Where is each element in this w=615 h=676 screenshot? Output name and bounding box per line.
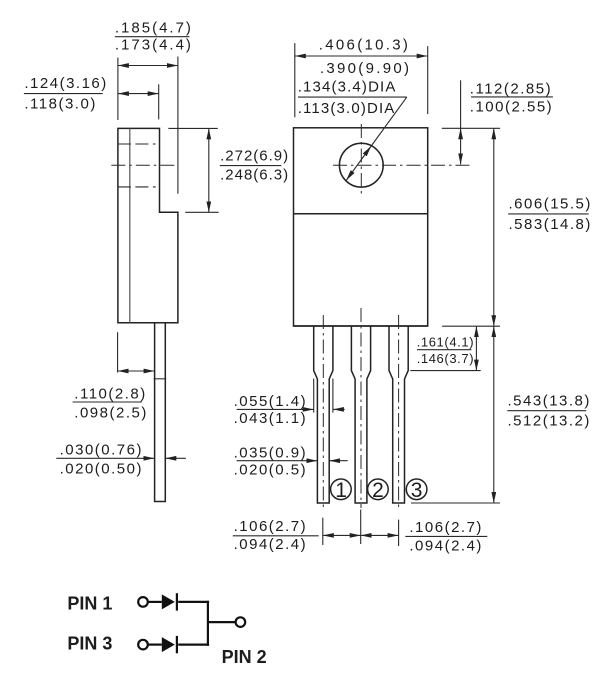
svg-text:PIN 1: PIN 1 — [67, 594, 112, 614]
wire D2 to node — [178, 643, 209, 645]
svg-text:PIN 3: PIN 3 — [67, 634, 112, 654]
terminal PIN1 circle — [138, 597, 148, 607]
svg-text:3: 3 — [411, 479, 423, 502]
dim .606 dimension line — [493, 128, 495, 326]
hole horizontal centerline — [333, 164, 470, 166]
front lead 3 — [389, 326, 408, 503]
svg-text:1: 1 — [335, 479, 347, 502]
pitch text right — [405, 519, 487, 555]
junction wire vertical — [207, 601, 209, 646]
dim .055 text and leader — [234, 393, 314, 427]
dim .112 dimension line — [460, 128, 462, 164]
svg-text:.146(3.7): .146(3.7) — [417, 351, 474, 366]
dim .606 text — [508, 196, 592, 233]
svg-text:.113(3.0)DIA: .113(3.0)DIA — [298, 100, 396, 117]
dim .110 text — [73, 386, 148, 422]
dim .185 extension left — [117, 58, 119, 121]
wire PIN3 to D2 — [148, 643, 162, 645]
dim .110 dimension line — [118, 370, 155, 372]
dim .272 dimension line — [208, 128, 210, 212]
pin number 3 — [406, 479, 427, 502]
dim .185 dimension line — [118, 65, 178, 67]
svg-text:.030(0.76): .030(0.76) — [60, 441, 143, 458]
dia leader arrows — [346, 146, 371, 180]
lead tip extension — [411, 502, 500, 504]
svg-text:.272(6.9): .272(6.9) — [220, 148, 289, 165]
svg-text:.583(14.8): .583(14.8) — [509, 216, 592, 233]
dim .124 extension — [158, 84, 160, 119]
diode D1 — [162, 594, 175, 609]
hole vertical centerline — [360, 124, 362, 195]
svg-text:.161(4.1): .161(4.1) — [417, 335, 474, 350]
svg-text:.112(2.85): .112(2.85) — [470, 81, 552, 98]
dim .112 text — [470, 81, 553, 116]
front view body — [294, 128, 428, 326]
svg-text:.098(2.5): .098(2.5) — [74, 405, 148, 422]
terminal PIN3 circle — [138, 640, 148, 650]
diode D1 cathode bar — [176, 593, 178, 610]
terminal PIN2 circle — [236, 617, 246, 627]
dim .110 extension — [117, 332, 119, 372]
svg-text:.185(4.7): .185(4.7) — [115, 19, 193, 36]
dim .543 dimension line — [493, 326, 495, 503]
dia text — [298, 78, 407, 117]
svg-text:.406(10.3): .406(10.3) — [319, 37, 410, 54]
dim .272 text — [220, 148, 289, 184]
svg-text:.043(1.1): .043(1.1) — [234, 410, 308, 427]
lead 1 centerline — [322, 315, 324, 508]
svg-text:.106(2.7): .106(2.7) — [409, 519, 483, 536]
pitch dimension line left span — [323, 534, 361, 536]
lead 2 centerline — [360, 308, 362, 508]
dim .035 text and leader — [234, 445, 318, 479]
svg-text:.020(0.5): .020(0.5) — [234, 462, 308, 479]
side view hidden hole line lower — [118, 186, 156, 188]
dim .124 text — [24, 75, 108, 113]
dim .035 right arrow — [329, 460, 348, 462]
side view hole centerline — [111, 164, 175, 166]
wire node to PIN2 — [208, 621, 235, 623]
front lead 2 — [351, 326, 370, 503]
body bottom extension — [442, 325, 500, 327]
dia leader line — [371, 97, 407, 146]
svg-text:.035(0.9): .035(0.9) — [234, 445, 308, 462]
side view lead transition tick — [154, 378, 167, 380]
svg-text:.055(1.4): .055(1.4) — [234, 393, 308, 410]
side view body outline — [118, 128, 178, 322]
front view tab/body divider — [294, 213, 428, 215]
dim .406 text — [319, 37, 411, 77]
pin number 2 — [368, 479, 389, 502]
diode D2 cathode bar — [176, 636, 178, 653]
dim .055 extension right — [332, 379, 334, 413]
svg-text:.124(3.16): .124(3.16) — [24, 75, 107, 92]
wire D1 to node — [178, 601, 209, 603]
svg-text:PIN 2: PIN 2 — [222, 647, 267, 667]
wire PIN1 to D1 — [148, 601, 162, 603]
svg-text:.173(4.4): .173(4.4) — [115, 37, 193, 54]
dim .124 dimension line — [118, 93, 159, 95]
svg-text:.020(0.50): .020(0.50) — [60, 461, 143, 478]
pitch extension left — [322, 518, 324, 545]
svg-text:.134(3.4)DIA: .134(3.4)DIA — [298, 78, 397, 95]
diode D2 — [162, 637, 175, 652]
dim .161 dimension line — [475, 326, 477, 370]
dim .055 right arrow — [333, 408, 345, 410]
dim .185 text — [115, 19, 193, 53]
svg-text:.512(13.2): .512(13.2) — [508, 413, 591, 430]
pitch extension right — [398, 520, 400, 546]
pin number 1 — [331, 479, 352, 502]
front view mounting hole — [339, 143, 383, 187]
dim .030 text and leader — [56, 441, 154, 477]
svg-text:.100(2.55): .100(2.55) — [470, 98, 553, 115]
svg-text:.110(2.8): .110(2.8) — [74, 386, 146, 403]
dim .543 text — [507, 392, 591, 429]
svg-text:.106(2.7): .106(2.7) — [234, 518, 308, 535]
dim .406 dimension line — [295, 55, 428, 57]
dim .272 extension bottom — [185, 211, 218, 213]
svg-text:2: 2 — [372, 479, 384, 502]
dim .161 lower extension — [410, 370, 480, 372]
dim .030 right arrow — [165, 457, 186, 459]
lead 3 centerline — [398, 315, 400, 508]
dim .112 tail — [460, 80, 462, 128]
front body bottom edge redraw — [294, 325, 428, 327]
svg-text:.248(6.3): .248(6.3) — [220, 166, 289, 183]
dim .112 extension — [442, 127, 500, 129]
svg-text:.543(13.8): .543(13.8) — [508, 392, 591, 409]
svg-text:.118(3.0): .118(3.0) — [24, 96, 96, 113]
pitch dimension line right span — [361, 534, 399, 536]
pitch extension middle — [360, 510, 362, 545]
side view lead — [155, 323, 166, 502]
dim .406 extension right — [427, 46, 429, 114]
svg-text:.094(2.4): .094(2.4) — [409, 538, 483, 555]
dim .185 extension right — [177, 57, 179, 194]
side view tab internal line — [129, 128, 131, 322]
svg-text:.390(9.90): .390(9.90) — [320, 60, 411, 77]
pitch text left — [233, 518, 319, 553]
front lead 1 — [314, 326, 333, 503]
svg-text:.094(2.4): .094(2.4) — [234, 536, 308, 553]
dim .272 extension top — [168, 127, 217, 129]
svg-text:.606(15.5): .606(15.5) — [509, 196, 592, 213]
side view hidden hole line upper — [118, 143, 156, 145]
dim .055 extension left — [313, 379, 315, 413]
dim .406 extension left — [294, 43, 296, 117]
dim .161 text — [417, 335, 474, 366]
